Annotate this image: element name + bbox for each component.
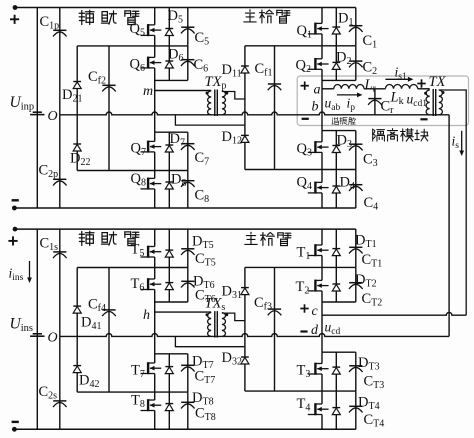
diode D_T4 <box>335 391 337 429</box>
capacitor C_1s <box>59 229 61 336</box>
capacitor C_T6 <box>187 268 189 303</box>
wire main mid bus lower <box>245 390 356 392</box>
wire aux mid bus upper <box>77 267 188 269</box>
capacitor C_f4 <box>108 268 110 393</box>
diode D_32 <box>241 357 249 364</box>
source U_inp <box>36 8 38 209</box>
diode D_31 <box>244 267 246 391</box>
transistor T2 <box>321 267 323 280</box>
diode D_T5 <box>168 229 170 267</box>
diode D_7 <box>168 132 170 170</box>
node top-left terminal <box>13 5 18 10</box>
wire TX secondary bottom to lower bridge <box>448 115 450 337</box>
transistor Q2 <box>321 46 323 59</box>
wire main bridge center column <box>321 80 323 130</box>
node top-left terminal <box>13 227 18 232</box>
diode D_41 <box>76 268 78 337</box>
transistor T3 <box>321 352 323 363</box>
wire TX secondary jog <box>222 313 245 321</box>
wire main bridge center column <box>321 302 323 352</box>
transformer TX_p <box>208 91 212 115</box>
diode D_5 <box>168 8 170 46</box>
arrow i_p <box>337 93 363 98</box>
wire Lr to Lk <box>364 88 385 90</box>
capacitor C_2s <box>59 336 61 429</box>
capacitor C_3 <box>355 131 357 170</box>
transistor Q5 <box>154 8 156 25</box>
inductor Lr <box>334 84 364 88</box>
diode D_12 <box>241 135 249 142</box>
wire top rail <box>15 228 356 230</box>
transistor T7 <box>154 354 156 363</box>
wire bottom rail <box>15 207 356 209</box>
wire aux arm center column <box>154 80 156 132</box>
diode D_11 <box>244 46 246 170</box>
arrow i_s <box>459 131 464 156</box>
node minus terminal <box>12 421 19 423</box>
transistor Q3 <box>321 131 323 142</box>
wire main inner bus 2 <box>322 79 356 81</box>
wire main inner bus 3 <box>322 351 356 353</box>
transistor T5 <box>154 229 156 246</box>
capacitor Cr <box>374 89 376 115</box>
label resonant cavity <box>332 117 339 124</box>
capacitor C_8 <box>187 171 189 209</box>
diode D_22 <box>76 115 78 171</box>
wire TX lower return <box>175 115 245 125</box>
transistor T8 <box>154 392 156 400</box>
svg-text:TX: TX <box>429 74 447 90</box>
wire main mid bus lower <box>245 169 356 171</box>
node bottom-left terminal <box>12 206 17 211</box>
label main bridge arm bottom <box>245 232 257 244</box>
transistor Q7 <box>154 132 156 141</box>
diode D_2 <box>335 46 337 81</box>
diode D_3 <box>335 131 337 170</box>
wire main inner bus 3 <box>322 130 356 132</box>
capacitor C_5 <box>187 8 189 46</box>
capacitor C_2 <box>355 46 357 81</box>
capacitor C_T4 <box>355 391 357 429</box>
diode D_1 <box>335 8 337 46</box>
capacitor C_1 <box>355 8 357 46</box>
capacitor C_f2 <box>108 46 110 171</box>
wire aux mid bus upper <box>77 45 188 47</box>
wire TX secondary jog <box>222 92 245 100</box>
transistor Q1 <box>321 8 323 24</box>
node minus terminal <box>12 199 19 201</box>
label isolation module <box>373 129 385 141</box>
svg-text:b: b <box>312 100 319 115</box>
arrow i_s1 <box>385 77 413 82</box>
diode D_8 <box>168 171 170 209</box>
node plus terminal <box>8 236 17 245</box>
arrow i_ins <box>27 261 32 283</box>
wire main inner bus 2 <box>322 301 356 303</box>
label main bridge arm top <box>244 10 256 22</box>
node O neutral rail <box>60 334 449 337</box>
diode D_21 <box>76 46 78 115</box>
transformer TX isolation <box>417 79 425 87</box>
diode D_T3 <box>335 352 337 391</box>
capacitor C_6 <box>187 46 189 81</box>
wire m tap <box>155 90 212 92</box>
label auxiliary arm bottom <box>79 231 94 245</box>
wire aux inner bus Q6 bottom <box>155 301 188 303</box>
svg-text:O: O <box>48 109 58 124</box>
wire aux mid bus lower <box>77 170 188 172</box>
diode D_T1 <box>335 229 337 267</box>
svg-text:c: c <box>312 304 319 319</box>
node plus terminal <box>10 15 19 24</box>
wire Lk to TX <box>418 88 430 90</box>
wire h tap <box>155 311 212 313</box>
wire aux inner bus Q6 bottom <box>155 79 188 81</box>
wire main mid bus upper <box>245 266 356 268</box>
capacitor C_T8 <box>187 392 189 429</box>
capacitor C_1p <box>59 8 61 115</box>
transistor T6 <box>154 268 156 280</box>
diode D_6 <box>168 46 170 81</box>
transistor Q8 <box>154 171 156 179</box>
capacitor C_T7 <box>187 354 189 392</box>
wire bottom rail <box>15 428 356 430</box>
resonant cavity box <box>297 76 468 126</box>
diode D_T8 <box>168 392 170 429</box>
wire TX secondary top to lower bridge <box>439 90 466 315</box>
svg-text:O: O <box>48 330 58 345</box>
wire c to TX secondary <box>322 312 466 315</box>
inductor Lk <box>385 85 417 89</box>
capacitor C_T5 <box>187 229 189 267</box>
wire aux mid bus lower <box>77 391 188 393</box>
label auxiliary arm top <box>79 10 94 24</box>
capacitor C_f3 <box>274 267 276 391</box>
transistor Q4 <box>321 170 323 183</box>
wire TX lower return <box>175 336 245 346</box>
transistor Q6 <box>154 46 156 58</box>
diode D_42 <box>76 336 78 392</box>
svg-text:m: m <box>143 84 153 99</box>
node O neutral rail <box>60 112 449 115</box>
capacitor C_T2 <box>355 267 357 302</box>
svg-text:d: d <box>311 323 319 338</box>
diode D_T6 <box>168 268 170 303</box>
svg-text:a: a <box>314 83 321 98</box>
diode D_T7 <box>168 354 170 392</box>
svg-text:h: h <box>143 308 150 323</box>
wire aux arm center column <box>154 302 156 354</box>
source U_ins <box>36 229 38 429</box>
capacitor C_7 <box>187 132 189 170</box>
wire main mid bus upper <box>245 45 356 47</box>
transformer TX_s <box>208 313 212 337</box>
capacitor C_T1 <box>355 229 357 267</box>
wire aux inner bus Q7 top <box>155 131 188 133</box>
capacitor C_f1 <box>274 46 276 170</box>
wire a to Lr <box>322 88 334 90</box>
diode D_T2 <box>335 267 337 302</box>
capacitor C_4 <box>355 170 357 209</box>
wire aux inner bus Q7 top <box>155 353 188 355</box>
transistor T1 <box>321 229 323 245</box>
capacitor C_2p <box>59 115 61 208</box>
node bottom-left terminal <box>12 427 17 432</box>
capacitor C_T3 <box>355 352 357 391</box>
wire top rail <box>15 7 356 9</box>
transistor T4 <box>321 391 323 404</box>
diode D_4 <box>335 170 337 209</box>
